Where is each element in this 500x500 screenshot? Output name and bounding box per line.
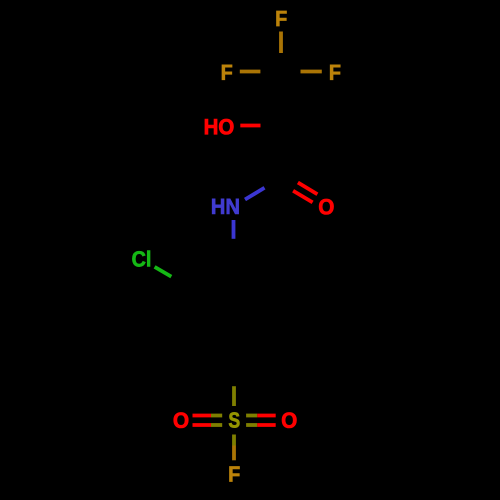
- atom F sulfonyl fluoride: [230, 467, 240, 482]
- wire bond N-C3 (N half): [245, 188, 265, 200]
- atom O sulfonyl left: [174, 413, 188, 428]
- wire bond S-Fbot (S half): [232, 435, 236, 446]
- wire double bond S=O right (S half): [246, 414, 257, 418]
- wire double bond C3=O (O half): [293, 191, 313, 203]
- wire bond C1-Fright (F half): [301, 70, 322, 74]
- atom F top: [277, 11, 287, 26]
- atom HN amide: [212, 199, 238, 214]
- atom F right: [330, 65, 340, 80]
- wire bond C2-OH (O half): [240, 124, 260, 128]
- wire bond C1-Fleft (F half): [240, 70, 261, 74]
- wire double bond S=O left (O half): [193, 414, 212, 418]
- wire bond S-Fbot (F half): [232, 446, 236, 461]
- wire bond C7-S (S half): [232, 386, 236, 406]
- atom O carbonyl: [319, 199, 333, 214]
- atom S sulfonyl: [229, 412, 240, 427]
- wire bond C1-Ftop (F half): [279, 32, 283, 54]
- atom Cl: [132, 251, 150, 267]
- atom HO hydroxyl: [205, 119, 233, 134]
- atom F left: [222, 65, 232, 80]
- wire bond Cl-C5 (Cl half): [155, 267, 172, 277]
- wire double bond S=O right (O half): [257, 414, 275, 418]
- wire double bond S=O left (S half): [211, 414, 222, 418]
- atom O sulfonyl right: [282, 413, 296, 428]
- wire bond N-C4 (N half): [232, 220, 236, 239]
